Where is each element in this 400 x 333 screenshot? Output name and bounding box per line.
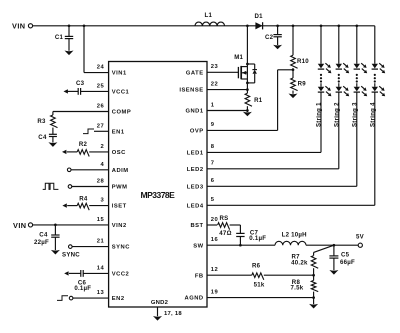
svg-text:String 2: String 2 bbox=[334, 102, 340, 127]
body diode of M1 bbox=[247, 64, 257, 83]
wire EN1 bbox=[94, 130, 109, 132]
svg-text:40.2k: 40.2k bbox=[291, 260, 308, 267]
node SYNC terminal bbox=[62, 245, 80, 259]
pin 13 EN2 label bbox=[97, 290, 125, 302]
svg-text:L1: L1 bbox=[205, 12, 213, 19]
logic step symbol EN2 bbox=[57, 296, 68, 301]
logic step symbol EN1 bbox=[83, 129, 94, 134]
svg-text:C3: C3 bbox=[76, 80, 85, 87]
svg-text:R10: R10 bbox=[297, 58, 309, 65]
svg-text:66µF: 66µF bbox=[340, 259, 355, 266]
svg-text:R3: R3 bbox=[37, 118, 46, 125]
svg-text:22µF: 22µF bbox=[34, 239, 49, 246]
wire 5V node to R7 (diagonal) bbox=[314, 245, 334, 252]
wire GATE bbox=[207, 71, 238, 73]
pin 21 SYNC label bbox=[97, 239, 130, 251]
svg-text:String 1: String 1 bbox=[317, 102, 323, 127]
junction OVP divider bbox=[292, 68, 295, 78]
svg-text:5V: 5V bbox=[356, 233, 365, 240]
wire AGND bbox=[207, 297, 314, 299]
pin 12 FB label bbox=[195, 267, 218, 279]
ground (GND2) bbox=[153, 316, 162, 321]
junction R8/AGND bbox=[312, 296, 315, 299]
inductor L2 10uH bbox=[275, 231, 307, 245]
svg-text:C4: C4 bbox=[38, 134, 47, 141]
svg-text:16: 16 bbox=[211, 237, 219, 243]
resistor RS 47ohm bbox=[218, 215, 232, 237]
wire R4 left bbox=[67, 205, 77, 207]
svg-text:C2: C2 bbox=[265, 34, 274, 41]
wire BST bbox=[207, 224, 217, 226]
svg-text:0.1µF: 0.1µF bbox=[74, 285, 91, 292]
svg-text:8: 8 bbox=[211, 144, 215, 150]
ground (below C1) bbox=[65, 51, 74, 56]
LED string 3 (LEDs + dotted continuation) bbox=[354, 26, 368, 187]
wire LED4 pin to string 4 bbox=[207, 204, 375, 206]
PWM square-wave symbol bbox=[43, 183, 59, 189]
pin 25 VCC1 label bbox=[97, 84, 130, 96]
LED string 1 (LEDs + dotted continuation) bbox=[318, 26, 332, 153]
junction string 2 rail tap bbox=[337, 24, 340, 27]
wire R4 to ISET bbox=[89, 205, 108, 207]
svg-text:SW: SW bbox=[193, 243, 203, 249]
svg-text:VIN1: VIN1 bbox=[112, 71, 127, 77]
svg-text:27: 27 bbox=[97, 123, 104, 129]
svg-text:OVP: OVP bbox=[190, 129, 204, 135]
pin 24 VIN1 label bbox=[97, 65, 127, 77]
svg-text:BST: BST bbox=[190, 223, 203, 229]
junction R1 bottom bbox=[246, 109, 249, 112]
pin 23 GATE label bbox=[186, 64, 219, 76]
svg-text:MP3378E: MP3378E bbox=[141, 190, 176, 200]
pin 5 LED4 label bbox=[187, 197, 215, 209]
wire LED1 pin to string 1 bbox=[207, 151, 321, 153]
svg-text:SYNC: SYNC bbox=[112, 245, 130, 251]
svg-text:GATE: GATE bbox=[186, 70, 204, 76]
svg-text:R9: R9 bbox=[298, 80, 307, 87]
ground (below AGND) bbox=[309, 298, 318, 309]
ground arrow (R4 left) bbox=[62, 203, 66, 207]
svg-text:9: 9 bbox=[211, 122, 215, 128]
ground (below C5) bbox=[329, 270, 338, 275]
svg-text:VCC1: VCC1 bbox=[112, 90, 130, 96]
junction VIN1 branch bbox=[83, 24, 86, 27]
resistor R7 40.2k bbox=[291, 252, 318, 268]
svg-text:24: 24 bbox=[97, 65, 105, 71]
resistor R8 7.5k bbox=[291, 275, 319, 291]
junction string 1 rail tap bbox=[320, 24, 323, 27]
pin 4 ADIM label bbox=[100, 162, 128, 174]
svg-text:GND2: GND2 bbox=[151, 300, 169, 306]
pin 19 AGND label bbox=[185, 289, 219, 301]
wire RS to C7 bbox=[230, 225, 241, 233]
svg-text:AGND: AGND bbox=[185, 296, 204, 302]
junction C1 tap bbox=[68, 24, 71, 27]
wire R6 to divider bbox=[264, 274, 314, 276]
ground (below R9) bbox=[289, 94, 298, 99]
wire GND1 bbox=[207, 106, 247, 112]
junction M1 body-diode top bbox=[246, 63, 249, 66]
pin 7 LED2 label bbox=[187, 161, 215, 173]
svg-text:6: 6 bbox=[211, 178, 215, 184]
svg-text:String 4: String 4 bbox=[370, 102, 376, 127]
svg-text:51k: 51k bbox=[254, 281, 265, 288]
pin 16 SW label bbox=[193, 237, 218, 249]
label String 3 bbox=[352, 102, 358, 127]
wire COMP branch bbox=[53, 112, 109, 116]
svg-text:2: 2 bbox=[100, 144, 104, 150]
svg-text:GND1: GND1 bbox=[185, 109, 203, 115]
wire SYNC bbox=[72, 246, 109, 248]
wire LED3 pin to string 3 bbox=[207, 185, 357, 187]
pin 6 LED3 label bbox=[187, 178, 215, 190]
svg-text:15: 15 bbox=[97, 217, 105, 223]
svg-text:LED1: LED1 bbox=[187, 151, 204, 157]
pin 20 BST label bbox=[190, 217, 218, 229]
svg-text:LED4: LED4 bbox=[187, 203, 204, 209]
IC U1 MP3378E body bbox=[109, 62, 207, 308]
junction string 3 rail tap bbox=[355, 24, 358, 27]
transistor M1 bbox=[234, 26, 247, 83]
svg-text:VIN2: VIN2 bbox=[112, 223, 127, 229]
svg-text:C5: C5 bbox=[341, 251, 350, 258]
svg-text:L2 10µH: L2 10µH bbox=[282, 231, 307, 238]
svg-text:LED2: LED2 bbox=[187, 167, 204, 173]
svg-text:OSC: OSC bbox=[112, 150, 126, 156]
pin 28 PWM label bbox=[97, 179, 128, 191]
capacitor C3 bbox=[67, 80, 109, 95]
svg-text:20: 20 bbox=[211, 217, 218, 223]
LED string 4 (LEDs + dotted continuation) bbox=[372, 26, 386, 206]
resistor R3 bbox=[37, 115, 57, 128]
inductor L1 bbox=[195, 12, 225, 26]
pin 14 VCC2 label bbox=[97, 266, 130, 278]
svg-text:25: 25 bbox=[97, 84, 105, 90]
junction 5V node bbox=[333, 244, 336, 247]
capacitor C5 66uF bbox=[329, 245, 355, 270]
capacitor C4 (comp) bbox=[38, 128, 57, 143]
svg-text:LED3: LED3 bbox=[187, 184, 204, 190]
pin 9 OVP label bbox=[190, 122, 215, 134]
resistor R2 bbox=[77, 141, 89, 157]
svg-text:EN2: EN2 bbox=[112, 296, 125, 302]
svg-text:C1: C1 bbox=[55, 34, 64, 41]
pin 26 COMP label bbox=[97, 104, 131, 116]
wire R9 bottom bbox=[292, 91, 294, 94]
capacitor C1 bbox=[55, 26, 73, 51]
wire GND2 pin bbox=[158, 307, 183, 317]
svg-text:PWM: PWM bbox=[112, 185, 128, 191]
wire L2 to 5V node bbox=[306, 244, 334, 246]
svg-text:ADIM: ADIM bbox=[112, 168, 129, 174]
ground arrow (C6 left) bbox=[64, 271, 68, 275]
svg-text:R6: R6 bbox=[252, 262, 261, 269]
wire EN2 bbox=[73, 297, 109, 299]
wire VIN rail to VIN1 pin bbox=[84, 26, 109, 73]
resistor R4 bbox=[77, 195, 89, 210]
wire ISENSE bbox=[207, 83, 247, 93]
resistor R1 bbox=[245, 93, 263, 106]
svg-text:D1: D1 bbox=[255, 13, 264, 20]
svg-text:12: 12 bbox=[211, 267, 218, 273]
junction M1 body-diode bottom bbox=[246, 82, 249, 85]
svg-text:7: 7 bbox=[211, 161, 215, 167]
svg-text:ISET: ISET bbox=[112, 204, 127, 210]
label String 1 bbox=[317, 102, 323, 127]
svg-text:47Ω: 47Ω bbox=[219, 230, 231, 237]
pin 27 EN1 label bbox=[97, 123, 125, 135]
junction C4 tap bbox=[54, 224, 57, 227]
resistor R9 bbox=[291, 78, 307, 91]
pin 1 GND1 label bbox=[185, 102, 214, 114]
ground (below C4) bbox=[51, 250, 60, 255]
node ADIM terminal bbox=[67, 168, 71, 172]
junction C7/SW bbox=[239, 244, 242, 247]
label String 2 bbox=[334, 102, 340, 127]
wire R10 rail tap bbox=[292, 24, 295, 55]
junction ISENSE tap bbox=[246, 88, 249, 91]
svg-text:5: 5 bbox=[211, 197, 215, 203]
svg-text:13: 13 bbox=[97, 290, 105, 296]
junction C2 tap bbox=[276, 24, 279, 27]
resistor R6 51k bbox=[252, 262, 265, 288]
wire LED2 pin to string 2 bbox=[207, 168, 339, 170]
svg-text:19: 19 bbox=[211, 289, 219, 295]
wire VIN to VIN2 bbox=[33, 224, 109, 226]
wire R8 bottom bbox=[313, 292, 315, 298]
svg-text:23: 23 bbox=[211, 64, 219, 70]
junction FB divider bbox=[312, 274, 315, 277]
svg-text:VIN: VIN bbox=[12, 21, 26, 30]
wire R7 bottom bbox=[313, 268, 315, 275]
svg-text:14: 14 bbox=[97, 266, 105, 272]
svg-text:EN1: EN1 bbox=[112, 129, 125, 135]
svg-text:3: 3 bbox=[100, 198, 104, 204]
wire R2 to OSC bbox=[89, 151, 108, 153]
capacitor C7 0.1uF bbox=[236, 230, 266, 246]
svg-text:1: 1 bbox=[211, 102, 215, 108]
svg-text:VIN: VIN bbox=[13, 221, 27, 230]
ground arrow (C3 left) bbox=[64, 89, 68, 93]
svg-text:28: 28 bbox=[97, 179, 105, 185]
node VIN (top input terminal) bbox=[12, 21, 33, 30]
svg-text:SYNC: SYNC bbox=[62, 252, 80, 259]
pin 22 ISENSE label bbox=[179, 81, 218, 93]
ground (R1 / GND1) bbox=[243, 112, 252, 117]
wire VIN rail (top) bbox=[33, 25, 375, 27]
svg-text:ISENSE: ISENSE bbox=[179, 88, 203, 94]
pin 3 ISET label bbox=[100, 198, 126, 210]
pin 8 LED1 label bbox=[187, 144, 215, 156]
wire OVP bbox=[207, 70, 293, 131]
capacitor C4 22uF bbox=[34, 225, 60, 250]
ground arrow (R2 left) bbox=[62, 150, 66, 154]
svg-text:21: 21 bbox=[97, 239, 105, 245]
svg-text:4: 4 bbox=[100, 162, 104, 168]
wire FB bbox=[207, 274, 252, 276]
svg-text:R4: R4 bbox=[79, 195, 88, 202]
node PWM terminal bbox=[68, 185, 72, 189]
svg-text:0.1µF: 0.1µF bbox=[249, 235, 266, 242]
svg-text:R2: R2 bbox=[79, 141, 88, 148]
svg-text:FB: FB bbox=[195, 273, 204, 279]
diode D1 bbox=[255, 13, 264, 29]
capacitor C6 0.1uF bbox=[69, 270, 109, 292]
wire ADIM bbox=[71, 169, 109, 171]
svg-text:VCC2: VCC2 bbox=[112, 272, 129, 278]
svg-text:COMP: COMP bbox=[112, 110, 131, 116]
capacitor C2 bbox=[265, 26, 282, 45]
node 5V output terminal bbox=[334, 233, 365, 247]
label String 4 bbox=[370, 102, 376, 127]
junction M1 drain tap bbox=[246, 24, 249, 27]
ground (below C2) bbox=[273, 45, 282, 50]
resistor R10 bbox=[291, 55, 310, 68]
LED string 2 (LEDs + dotted continuation) bbox=[336, 26, 350, 169]
ground (below comp C4) bbox=[48, 142, 57, 147]
wire SW bbox=[207, 244, 275, 246]
wire PWM bbox=[72, 186, 109, 188]
svg-text:C4: C4 bbox=[39, 232, 48, 239]
svg-text:R1: R1 bbox=[254, 97, 263, 104]
svg-text:26: 26 bbox=[97, 104, 105, 110]
pin 15 VIN2 label bbox=[97, 217, 127, 229]
node EN2 terminal bbox=[69, 296, 73, 300]
svg-text:RS: RS bbox=[220, 215, 229, 222]
svg-text:String 3: String 3 bbox=[352, 102, 358, 127]
node VIN (bottom input terminal) bbox=[13, 221, 33, 230]
svg-text:22: 22 bbox=[211, 81, 218, 87]
svg-text:7.5k: 7.5k bbox=[291, 285, 304, 292]
wire R2 left bbox=[67, 151, 77, 153]
svg-text:M1: M1 bbox=[234, 54, 243, 61]
svg-text:17, 18: 17, 18 bbox=[164, 311, 182, 317]
pin 2 OSC label bbox=[100, 144, 126, 156]
